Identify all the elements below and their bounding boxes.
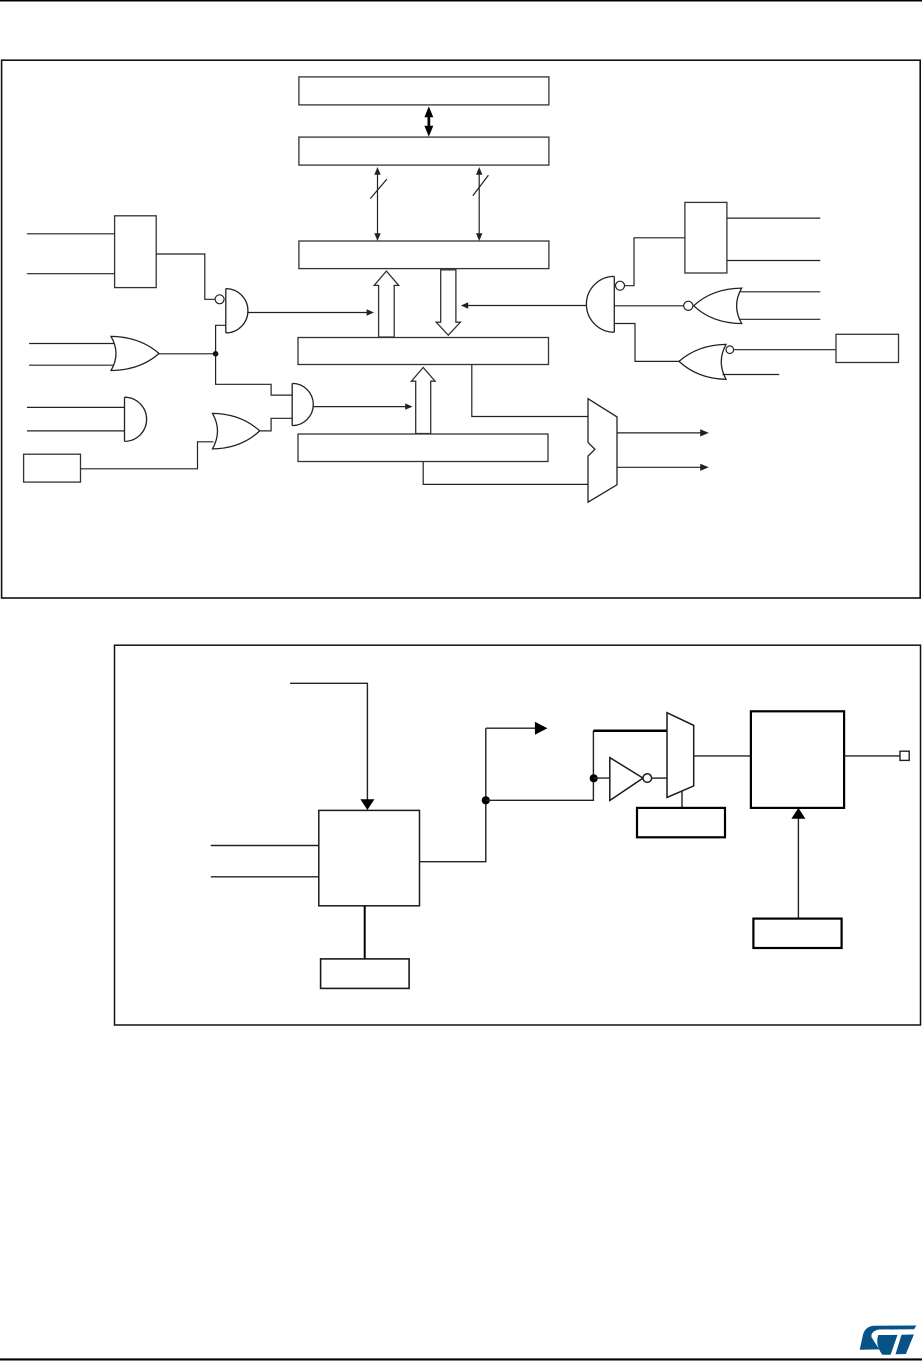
register box B3 <box>299 241 549 269</box>
multiplexer M2 <box>667 713 694 798</box>
AND gate G3 <box>125 397 147 441</box>
ST logo <box>860 1326 917 1355</box>
inverter U1 <box>610 758 643 801</box>
input block top-left <box>115 216 157 288</box>
block arrow up between B5 and B4 <box>411 368 435 434</box>
register box B1 <box>299 77 549 105</box>
register box B4 <box>298 338 549 365</box>
bus arrow right between B2 and B3 <box>478 173 480 236</box>
wire M2 output to flip-flop <box>694 755 751 757</box>
inverter bubble at G6 upper input <box>616 281 625 290</box>
arrowhead into oscillator block <box>360 799 374 810</box>
figure 1 outer frame <box>2 60 921 598</box>
OR gate G2 <box>111 336 159 370</box>
wire G2 output to node A <box>159 353 216 355</box>
bus arrow left between B2 and B3 <box>377 173 379 236</box>
clock control block <box>637 808 725 837</box>
wire node A to G1 lower input <box>216 325 226 354</box>
register box B2 <box>299 137 549 165</box>
NOR gate G7 (mirrored OR) <box>694 288 742 324</box>
G7 input stub 1 <box>740 291 820 293</box>
inverter U1 bubble <box>643 774 652 783</box>
wire oscillator output right then up <box>420 728 486 862</box>
AND gate G3 inputs <box>27 406 125 408</box>
thick wire bypass to mux M2 upper input <box>593 729 667 732</box>
oscillator input wire 2 <box>211 876 319 878</box>
bottom control block <box>753 919 841 948</box>
mode block bottom-left <box>24 454 81 482</box>
wire G6 output arrow to down block arrow <box>468 305 587 307</box>
OR gate G5 <box>213 413 260 449</box>
node A junction dot <box>213 351 219 357</box>
divider block (flip-flop) <box>751 711 844 808</box>
wire G6 bubble to control block <box>625 238 685 286</box>
oscillator input wire 1 <box>211 845 319 847</box>
wire NOR gate G7 output to G6 middle input <box>614 305 683 307</box>
block arrow up between B4 and B3 <box>374 271 399 337</box>
AND gate G1 <box>226 289 248 333</box>
NOR gate G7 output bubble <box>684 301 693 310</box>
thick bidirectional arrow between B1 and B2 <box>424 106 433 136</box>
wire G8 bubble to right small block <box>734 349 836 351</box>
mirrored AND gate G6 <box>586 276 614 332</box>
output pad square <box>900 751 909 760</box>
wire control block up-arrow into flip-flop <box>797 817 799 919</box>
wire G6 lower input to OR gate G8 output <box>614 324 679 362</box>
arrow stub at top <box>486 727 536 729</box>
wire bottom-left block to OR gate G5 lower input <box>81 442 214 469</box>
G8 inverted input bubble <box>726 346 734 354</box>
crystal block <box>321 959 410 989</box>
block arrow down between B3 and B4 <box>436 270 460 335</box>
wire B4 to mux M1 upper input <box>472 365 588 417</box>
bus slash left <box>370 179 387 199</box>
wire G5 output to G4 lower input <box>260 418 293 431</box>
top header bar <box>0 0 922 2</box>
wire input 2 to top-left block <box>27 273 115 275</box>
wire node A to G4 upper input <box>216 354 293 395</box>
bottom footer bar <box>0 1358 922 1360</box>
wire G1 output arrow to up block arrow <box>248 312 368 314</box>
wire top-left block to inverted input of gate G1 <box>156 254 215 299</box>
figure 2 outer frame <box>115 645 921 1025</box>
wire node C to inverter U1 <box>593 777 609 779</box>
register box B5 <box>298 434 548 462</box>
node B junction dot <box>482 796 490 804</box>
control block output stub 2 <box>727 260 820 262</box>
G7 input stub 2 <box>740 318 820 320</box>
wire top input down to oscillator block <box>290 683 367 800</box>
control block output stub 1 <box>727 217 820 219</box>
oscillator block <box>319 810 420 905</box>
wire U1 output to mux M2 <box>652 777 667 779</box>
M1 output arrow 2 <box>617 466 701 468</box>
right small block <box>836 334 899 362</box>
M1 output arrow 1 <box>617 432 701 434</box>
multiplexer M1 <box>588 399 617 503</box>
wire input 1 to top-left block <box>27 233 115 235</box>
wire B5 to mux M1 lower input <box>423 462 588 485</box>
wire G4 output arrow to up block arrow <box>313 406 406 408</box>
control block top-right <box>685 202 727 273</box>
wire M2 select from clock control block <box>681 792 683 808</box>
OR gate G8 (mirrored, inverted upper input) <box>679 344 726 379</box>
AND gate G4 <box>292 383 313 425</box>
bus slash right <box>473 175 489 196</box>
node C junction dot <box>590 774 598 782</box>
G8 lower input stub <box>723 374 780 376</box>
wire node B to node C <box>486 731 594 801</box>
thick wire oscillator to crystal block <box>364 906 366 959</box>
inverter bubble at G1 input <box>215 295 224 304</box>
OR gate G2 inputs <box>29 343 116 345</box>
wire flip-flop output to pad <box>844 755 900 757</box>
